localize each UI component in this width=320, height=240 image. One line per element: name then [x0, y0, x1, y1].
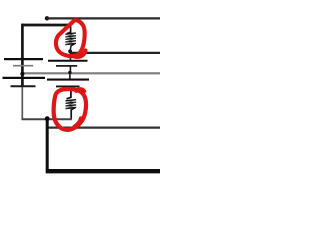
annotation: red end hook of circle R2 — [74, 118, 81, 127]
annotation: red circle around R2 — [54, 89, 86, 130]
wire (left vertical bus, upper black part) — [21, 24, 24, 87]
node (R1 / middle battery junction) — [68, 49, 72, 53]
battery B2 plate (long, top cell) — [48, 60, 88, 62]
wire (gray center-tap wire to right edge) — [22, 72, 160, 74]
battery B1 plate (short gray, top cell) — [13, 65, 33, 67]
battery B2 plate (long, bottom cell) — [47, 79, 89, 81]
node A (top terminal dot) — [45, 16, 49, 20]
wire (top-left horizontal, battery top to R1 top) — [22, 24, 71, 27]
annotation: red circle around R1 — [56, 20, 85, 56]
wire (lower tap to right edge) — [48, 126, 160, 128]
wire (middle battery inter-cell lead) — [69, 66, 71, 72]
wire (lead into middle battery) — [69, 53, 71, 60]
battery B2 plate (short, bottom cell) — [56, 85, 80, 87]
wire (top, from node A to right edge) — [47, 17, 160, 19]
battery B1 plate (long, bottom cell) — [3, 77, 46, 79]
node (main bottom junction) — [45, 116, 50, 121]
battery B1 plate (long, top cell) — [4, 58, 43, 60]
node (left battery center tap) — [20, 72, 24, 76]
battery B1 plate (short, bottom cell) — [11, 85, 36, 87]
annotation: red start hook of circle R2 (top-right overlap) — [76, 89, 84, 91]
wire (R1 bottom lead) — [70, 44, 74, 52]
node (middle battery center tap) — [68, 71, 71, 74]
wire (left vertical bus, lower thin gray part) — [21, 87, 23, 119]
resistor R1 — [66, 33, 75, 44]
wire (R2 bottom lead) — [71, 108, 75, 119]
wire (junction to right edge) — [70, 52, 160, 54]
wire (bottom-left horizontal) — [22, 118, 72, 120]
annotation: red tail of circle R1 — [73, 50, 86, 56]
wire (R2 top lead) — [67, 87, 71, 99]
wire (thick bottom bus to right edge) — [46, 169, 160, 173]
wire (R1 top lead) — [67, 24, 71, 33]
wire (middle battery lower lead) — [69, 73, 71, 79]
resistor R2 — [66, 100, 75, 109]
wire (thick vertical down from junction) — [46, 119, 49, 170]
battery B2 plate (short, top cell) — [56, 65, 77, 67]
